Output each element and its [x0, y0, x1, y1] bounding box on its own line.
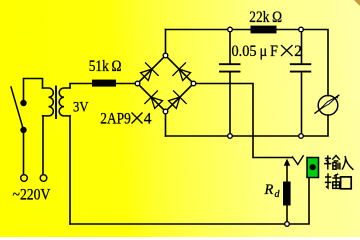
diode D1 (left-top edge)	[141, 62, 159, 80]
svg-text:0.05 μ F: 0.05 μ F	[232, 43, 279, 60]
svg-text:51k Ω: 51k Ω	[89, 58, 122, 75]
jack contact dot	[310, 164, 316, 170]
transformer T1 primary winding	[43, 88, 54, 116]
transformer core	[55, 87, 57, 119]
wire: switch top to primary	[24, 79, 43, 104]
socket V contact	[293, 156, 304, 165]
svg-text:R: R	[264, 182, 274, 198]
resistor 22k body	[251, 26, 277, 34]
node: bridge bottom	[163, 109, 168, 114]
wire: left capacitor branch	[229, 30, 231, 65]
diode D4 (bottom-right edge)	[169, 90, 187, 108]
switch blade	[11, 87, 24, 130]
capacitor C2 plates	[291, 63, 311, 65]
meter needle white body	[321, 97, 337, 109]
meter needle arrowhead	[336, 95, 339, 99]
node: bridge right	[191, 81, 196, 86]
svg-text:~220V: ~220V	[13, 186, 52, 203]
char 口	[341, 177, 352, 189]
char 入	[342, 156, 353, 170]
resistor Rd body	[283, 182, 291, 206]
AC terminal right	[40, 175, 47, 182]
char 输	[324, 155, 331, 169]
wire: top rail	[166, 30, 329, 96]
svg-text:2: 2	[294, 43, 302, 60]
svg-text:3V: 3V	[73, 99, 89, 115]
transformer T1 secondary winding	[59, 88, 70, 116]
plug arrow	[284, 159, 291, 166]
wire: switch bottom dot to left AC terminal	[23, 130, 25, 174]
wire: middle bus	[166, 115, 329, 136]
svg-text:2AP9: 2AP9	[100, 111, 131, 128]
wire: right capacitor branch	[301, 30, 303, 65]
node: top rail / C1	[228, 27, 233, 32]
node: bridge left	[135, 81, 140, 86]
wire: bottom bus	[70, 178, 309, 225]
AC terminal left	[21, 175, 28, 182]
diode D2 (right-top edge)	[172, 62, 190, 80]
node: middle bus / C1	[228, 134, 233, 139]
switch S1 contact dots	[20, 100, 26, 106]
resistor 51k body	[92, 80, 116, 87]
node: top rail / C2	[299, 27, 304, 32]
svg-text:22k Ω: 22k Ω	[249, 9, 282, 26]
input jack (green)	[307, 158, 319, 178]
wire: plug stem through Rd to bus	[286, 165, 288, 225]
wire: meter needle	[315, 95, 339, 113]
capacitor C1 plates	[220, 63, 240, 65]
wire: bridge bottom node to middle bus	[165, 112, 167, 137]
wire: secondary top to bridge left node	[70, 84, 138, 89]
page fold corner	[354, 0, 360, 6]
wire: bridge right node to input socket	[194, 84, 293, 158]
meter M1	[318, 96, 338, 116]
node: middle bus / C2	[299, 134, 304, 139]
node: bridge top	[163, 53, 168, 58]
char 插	[325, 173, 332, 188]
label 输入 (drawn strokes)	[324, 155, 353, 169]
wire: secondary bottom down to bottom bus	[69, 116, 71, 224]
bridge diamond wires	[138, 56, 194, 112]
diode D3 (bottom-left edge)	[144, 90, 162, 108]
wire: bridge top node to top rail	[165, 30, 167, 56]
wire: primary bottom to right AC terminal	[42, 116, 44, 174]
node: bottom bus / Rd	[285, 222, 290, 227]
svg-text:4: 4	[144, 111, 152, 128]
